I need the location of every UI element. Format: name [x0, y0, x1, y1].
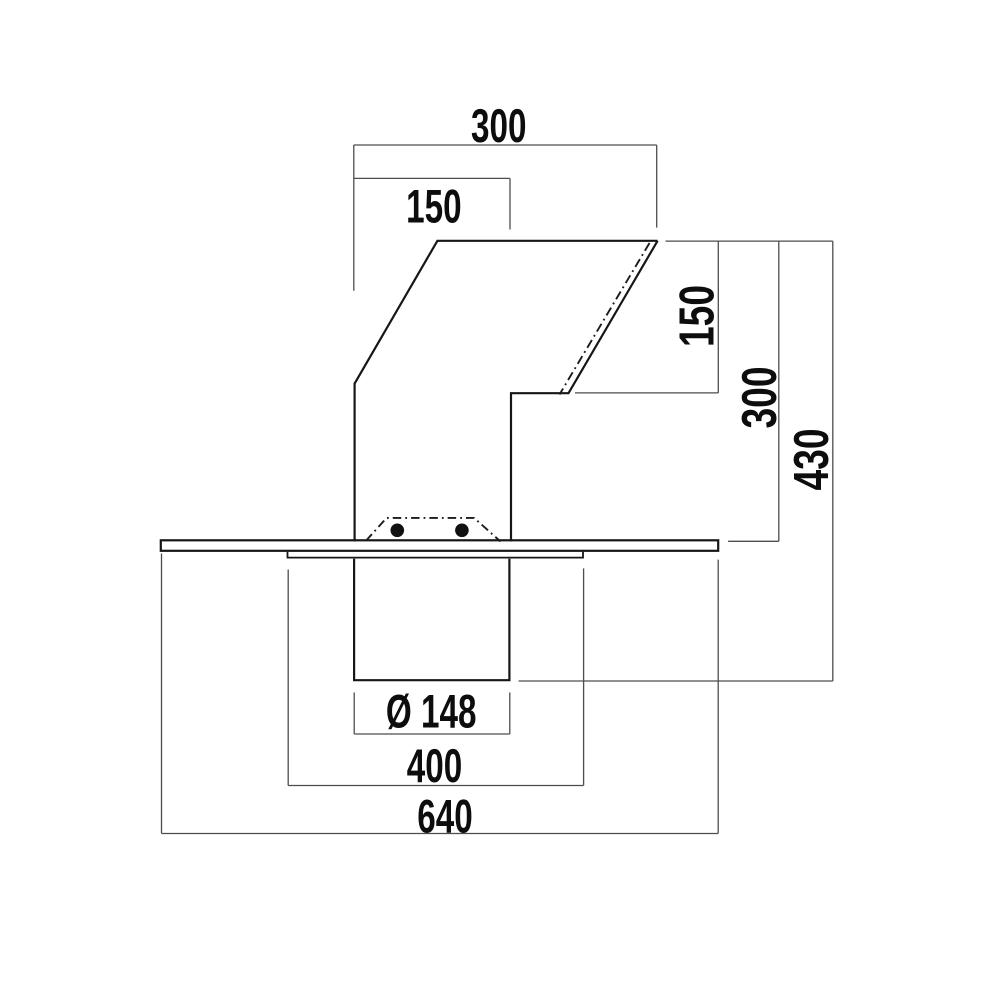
- dimension diameter 148 left tick: [353, 693, 355, 735]
- dimension 300/150 top shared left extension: [353, 145, 355, 291]
- dimension 640 left extension: [161, 554, 163, 834]
- dimension 150 top: line: [354, 177, 510, 179]
- svg-text:300: 300: [733, 366, 787, 428]
- svg-text:150: 150: [406, 180, 461, 233]
- dimension 400 right extension: [583, 568, 585, 785]
- dimension 150 top right extension: [509, 178, 511, 229]
- dimension 150 right bottom extension: [575, 392, 718, 394]
- svg-text:430: 430: [785, 428, 839, 490]
- dimension 400 left extension: [287, 570, 289, 786]
- bolt right: [455, 524, 469, 538]
- dimension 150 right: vertical line: [717, 241, 719, 393]
- right dims top extension from corner: [666, 240, 833, 242]
- bolt detail dash-dot trapezoid above plate: [366, 518, 500, 542]
- dimension 300 right: vertical line: [778, 241, 780, 541]
- svg-text:400: 400: [407, 739, 462, 792]
- base plate: [161, 540, 718, 551]
- under-plate strip (400 wide flange): [288, 552, 584, 558]
- dimension 430 right: vertical line: [832, 241, 834, 681]
- dimension 300 top right extension: [656, 145, 658, 228]
- dimension 300 top: line: [354, 144, 657, 146]
- svg-text:300: 300: [471, 99, 526, 152]
- dimension 640: line: [162, 833, 719, 835]
- dimension 640 right extension: [717, 560, 719, 834]
- lower duct (spigot below plate): [354, 559, 509, 680]
- fold dash-dot line parallel to right slant: [560, 243, 650, 395]
- dimension diameter 148: bracket line: [354, 733, 510, 735]
- dimension 300 right bottom connector: [728, 540, 779, 542]
- svg-text:640: 640: [417, 790, 472, 843]
- dimension 400: line: [288, 785, 583, 787]
- svg-text:150: 150: [671, 285, 725, 347]
- upper duct outline left (slanted offset chimney body): [355, 241, 658, 542]
- dimension 430 right bottom extension: [519, 680, 833, 682]
- bolt left: [391, 524, 405, 538]
- svg-text:Ø 148: Ø 148: [386, 685, 477, 738]
- upper duct outline right with jog: [511, 241, 658, 542]
- dimension diameter 148 right tick: [509, 693, 511, 735]
